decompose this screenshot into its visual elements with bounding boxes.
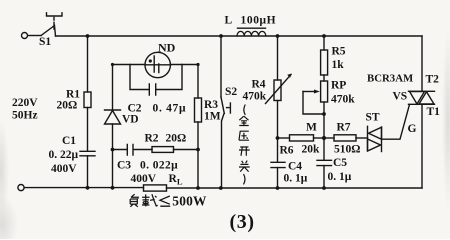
load resistor RL [144,185,167,191]
resistor R1 [84,36,91,151]
capacitor C5 [317,138,332,188]
svg-text:R2: R2 [145,133,159,145]
junction: R3 line / bottom rail [196,186,200,190]
svg-text:R5: R5 [332,46,346,58]
capacitor C3 [113,145,153,156]
dot inside ND lamp [149,59,152,62]
top rail wire [56,35,423,37]
svg-text:470k: 470k [243,91,267,103]
hanzi 负 (load note) [130,194,138,207]
svg-text:500W: 500W [172,194,207,209]
junction: ND row left [111,63,114,66]
svg-text:G: G [408,123,417,135]
diode VD [105,65,121,189]
gate wire G [382,105,410,140]
svg-text:R7: R7 [337,122,351,134]
svg-text:20Ω: 20Ω [57,100,78,112]
svg-text:0. 022μ: 0. 022μ [140,160,178,172]
rheostat R4 [266,36,292,138]
junction: RP wiper loop [322,112,326,116]
resistor R3 [195,65,202,189]
svg-text:400V: 400V [131,173,157,185]
capacitor C4 [271,138,285,188]
开 [239,147,250,156]
svg-text:20k: 20k [302,144,321,156]
junction: S2 line / bottom rail [219,186,223,190]
svg-text:470k: 470k [331,94,355,106]
svg-text:50Hz: 50Hz [12,110,38,122]
svg-text:VS: VS [393,91,408,103]
svg-text:T1: T1 [427,106,441,118]
junction: snubber row / R3 line [196,148,200,152]
≤ symbol (load note) [160,196,170,206]
svg-text:C5: C5 [333,157,347,169]
right vertical wire (T1 lead to bottom rail) [421,105,423,189]
junction: R5 branch / top rail [322,34,326,38]
neon lamp ND [113,52,199,77]
junction: R1 branch / top rail [86,34,90,38]
svg-text:ND: ND [158,41,176,55]
svg-text:C3: C3 [117,160,131,172]
switch S1 [22,13,63,39]
svg-text:C4: C4 [288,161,302,173]
resistor R6 [278,135,325,141]
junction: R4 branch / top rail [276,34,280,38]
svg-text:100μH: 100μH [241,15,277,27]
junction: ND row right [196,63,199,66]
svg-text:RP: RP [331,80,346,92]
switch S2 [221,36,230,188]
junction: C4 / bottom rail [276,186,280,190]
hanzi 载 (load note) [142,194,158,206]
svg-text:510Ω: 510Ω [334,144,360,156]
svg-text:400V: 400V [51,163,77,175]
svg-text:0. 47μ: 0. 47μ [153,103,187,115]
hanzi（全压开关）vertical note [239,105,250,185]
svg-text:T2: T2 [426,74,440,86]
svg-text:20Ω: 20Ω [166,133,187,145]
svg-text:VD: VD [122,114,139,126]
svg-text:S1: S1 [39,36,51,48]
junction: S2 branch / top rail [219,34,223,38]
svg-text:ST: ST [366,112,380,124]
svg-text:0. 22μ: 0. 22μ [49,149,79,161]
bottom rail wire (right of RL) [167,187,423,189]
potentiometer RP [303,75,328,138]
svg-text:1k: 1k [332,59,345,71]
capacitor C1 [80,151,95,188]
resistor R7 [324,135,368,141]
resistor R2 [152,147,198,153]
svg-text:R4: R4 [252,79,266,91]
svg-text:S2: S2 [225,86,237,98]
关 [239,161,250,172]
svg-text:0. 1μ: 0. 1μ [328,171,352,183]
（ [244,105,246,116]
svg-text:0. 1μ: 0. 1μ [284,173,308,185]
svg-text:C1: C1 [62,135,76,147]
inductor L [237,28,266,36]
junction: snubber row / VD line [111,148,115,152]
svg-text:M: M [306,122,317,134]
svg-text:L: L [225,15,233,27]
） [244,174,246,184]
junction: C1 / bottom rail [86,186,90,190]
junction: C5 / bottom rail [322,186,326,190]
resistor R5 [321,36,328,75]
svg-text:(3): (3) [230,211,255,233]
svg-text:BCR3AM: BCR3AM [367,73,413,85]
bottom-left mains terminal [18,185,24,191]
svg-text:R3: R3 [204,99,218,111]
diac ST [368,126,382,151]
junction: R6 left / R4 line [276,136,280,140]
right vertical wire (T2 lead) [421,36,423,91]
node M [322,136,326,140]
全 [239,116,248,125]
压 [239,131,249,140]
svg-text:1M: 1M [204,111,221,123]
svg-text:R6: R6 [280,145,294,157]
bottom rail wire (left of RL) [25,187,144,189]
triac VS [409,91,435,104]
svg-text:220V: 220V [12,97,38,109]
capacitor C2 (with brackets to ND row) [130,65,182,96]
junction: VD line / bottom rail [111,186,115,190]
